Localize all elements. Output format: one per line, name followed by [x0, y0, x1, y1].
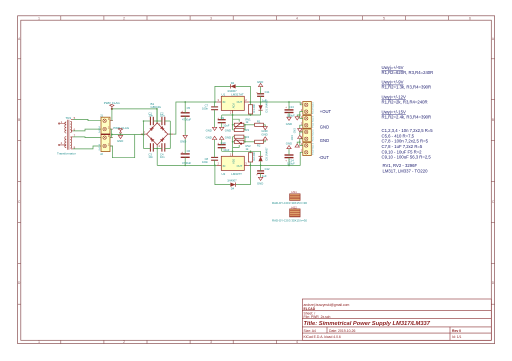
op-amp U1 regulator LM317 — [221, 96, 244, 110]
svg-text:C12: C12 — [265, 167, 270, 171]
svg-text:GND: GND — [286, 141, 292, 145]
capacitor C14 — [285, 155, 294, 158]
svg-text:D2: D2 — [231, 81, 235, 85]
svg-text:R1,R2=1.3k, R3,R4=390R: R1,R2=1.3k, R3,R4=390R — [382, 84, 432, 89]
svg-text:GND: GND — [257, 80, 263, 84]
wire output gnd brackets — [297, 112, 303, 146]
svg-text:+: + — [181, 109, 183, 113]
svg-text:Rev 0: Rev 0 — [452, 329, 461, 333]
svg-text:C5,6 - 410 R=7,5: C5,6 - 410 R=7,5 — [382, 133, 415, 138]
svg-text:U2: U2 — [222, 172, 226, 176]
svg-text:+: + — [256, 172, 258, 176]
ground bracket B up — [295, 144, 299, 147]
connector P4 output — [303, 143, 312, 156]
connector P1 output — [303, 102, 312, 115]
svg-text:4: 4 — [296, 340, 298, 344]
svg-text:P2x1 S2x2,5: P2x1 S2x2,5 — [312, 129, 314, 142]
connector P2 output — [303, 115, 312, 128]
svg-text:2: 2 — [123, 16, 125, 20]
svg-text:GND: GND — [320, 138, 329, 143]
svg-text:R1 240: R1 240 — [252, 104, 256, 113]
svg-text:3: 3 — [210, 16, 212, 20]
resistor R2 — [248, 153, 252, 162]
svg-text:C9,10 - 100uF 56,3 R=2,5: C9,10 - 100uF 56,3 R=2,5 — [382, 155, 432, 160]
wire AC1 rail — [112, 109, 157, 124]
svg-text:Date: 2019-10-26: Date: 2019-10-26 — [329, 329, 356, 333]
svg-text:2x0,54: 2x0,54 — [99, 126, 101, 133]
svg-text:LM337T: LM337T — [231, 172, 242, 176]
diode D2 bypass — [215, 86, 251, 102]
svg-text:6: 6 — [469, 16, 471, 20]
svg-text:PWR_FLAG: PWR_FLAG — [113, 126, 130, 130]
diode D4 bypass — [215, 165, 251, 184]
capacitor C4 — [162, 143, 165, 151]
svg-text:10n: 10n — [160, 155, 165, 159]
svg-text:D3 1N4007: D3 1N4007 — [264, 147, 268, 161]
svg-text:+: + — [217, 116, 219, 120]
connector J1 — [101, 117, 110, 134]
svg-text:4700uF: 4700uF — [182, 118, 191, 122]
svg-text:RAD-DY-CO/3 30X15 h=30: RAD-DY-CO/3 30X15 h=30 — [272, 201, 307, 205]
ground mid C5 C6 — [183, 135, 187, 138]
trimmer RV1 — [234, 123, 244, 126]
resistor R4 — [234, 135, 244, 138]
svg-text:C9,10 - 10uF F5 R=2: C9,10 - 10uF F5 R=2 — [382, 149, 423, 154]
wire U2 out rail — [222, 151, 303, 165]
svg-text:GND: GND — [291, 135, 294, 141]
svg-text:ADJ: ADJ — [231, 158, 235, 164]
svg-text:KiCad E.D.A. kicad 4.0.6: KiCad E.D.A. kicad 4.0.6 — [304, 335, 341, 339]
svg-text:R1,R2=620R, R3,R4=240R: R1,R2=620R, R3,R4=240R — [382, 70, 434, 75]
capacitor C6 — [181, 154, 190, 157]
svg-text:+OUT: +OUT — [320, 109, 332, 114]
svg-text:J1: J1 — [100, 113, 103, 117]
svg-text:GND: GND — [286, 122, 292, 126]
svg-text:IN: IN — [223, 164, 226, 168]
ground P2 pin2 — [298, 129, 302, 132]
svg-text:1: 1 — [38, 340, 40, 344]
bridge B1 — [147, 123, 168, 145]
svg-text:ELCAD: ELCAD — [304, 307, 316, 311]
capacitor C8 — [211, 157, 218, 160]
svg-text:GND: GND — [257, 182, 263, 186]
op-amp U2 regulator LM337 — [221, 156, 244, 170]
svg-text:C10: C10 — [221, 141, 226, 145]
svg-text:R2: R2 — [257, 144, 261, 148]
ground C10 up — [220, 136, 224, 139]
svg-text:Transformator: Transformator — [57, 151, 76, 155]
capacitor C5 — [181, 113, 190, 116]
svg-text:2x0,54: 2x0,54 — [99, 143, 101, 150]
svg-text:100uF: 100uF — [287, 161, 295, 165]
svg-text:-OUT: -OUT — [319, 155, 330, 160]
wire TR1 sec to J1 — [73, 119, 101, 148]
svg-text:R4: R4 — [246, 135, 250, 139]
resistor R6 — [255, 140, 264, 143]
svg-text:C11: C11 — [265, 90, 270, 94]
capacitor C11 — [257, 94, 264, 97]
svg-text:GND: GND — [180, 140, 186, 144]
svg-text:GND: GND — [320, 124, 329, 129]
ground C14 up — [287, 146, 291, 149]
svg-text:HS2: HS2 — [291, 205, 297, 209]
capacitor C1 — [150, 117, 153, 125]
heatsink HS2 — [290, 209, 301, 217]
ground C9 — [220, 127, 224, 130]
svg-text:ADJ: ADJ — [231, 103, 235, 109]
connector P3 output — [303, 129, 312, 142]
svg-text:10uF: 10uF — [223, 148, 229, 152]
wire centre tap — [110, 129, 144, 138]
svg-text:R1: R1 — [257, 119, 261, 123]
connector J2 — [101, 134, 110, 151]
resistor R5 — [255, 123, 264, 126]
resistor R1 — [248, 105, 252, 114]
svg-text:C7,8 - 1uF 7,2x2 R=5: C7,8 - 1uF 7,2x2 R=5 — [382, 144, 423, 149]
trimmer RV2 — [234, 140, 244, 143]
svg-text:1: 1 — [38, 16, 40, 20]
svg-text:C13: C13 — [289, 105, 294, 109]
resistor R3 — [234, 128, 244, 131]
svg-text:Title: Simmetrical Power Suppl: Title: Simmetrical Power Supply LM317/LM… — [304, 321, 431, 327]
wire U1 out rail — [222, 102, 303, 130]
svg-text:10n: 10n — [148, 114, 153, 118]
junction dots — [111, 101, 300, 166]
svg-text:C1,2,3,4 - 10n 7,2x2,5 R=5: C1,2,3,4 - 10n 7,2x2,5 R=5 — [382, 128, 434, 133]
svg-text:1N4007: 1N4007 — [227, 179, 237, 183]
svg-text:100n: 100n — [202, 160, 208, 164]
svg-text:GND: GND — [206, 128, 212, 132]
svg-text:C6: C6 — [187, 149, 191, 153]
ground C11 up — [258, 83, 262, 86]
svg-text:Size: A4: Size: A4 — [304, 329, 317, 333]
svg-text:J2: J2 — [100, 152, 103, 156]
svg-text:R1,R2=2.4k, R3,R4=390R: R1,R2=2.4k, R3,R4=390R — [382, 114, 432, 119]
svg-text:C7,8 - 100n 7,2x2,5 R=5: C7,8 - 100n 7,2x2,5 R=5 — [382, 139, 429, 144]
svg-text:C9: C9 — [221, 116, 225, 120]
capacitor C3 — [150, 143, 153, 151]
svg-text:P2x1 S2x2,5: P2x1 S2x2,5 — [312, 115, 314, 128]
svg-text:4: 4 — [296, 16, 298, 20]
svg-text:10n: 10n — [160, 114, 165, 118]
diode D3 — [259, 156, 263, 161]
svg-text:D4: D4 — [231, 187, 235, 191]
svg-text:5: 5 — [383, 16, 385, 20]
svg-text:RV1, RV2 - 3296F: RV1, RV2 - 3296F — [383, 163, 418, 168]
svg-text:Id: 1/1: Id: 1/1 — [452, 335, 462, 339]
capacitor C12 — [257, 171, 264, 174]
svg-text:3: 3 — [210, 340, 212, 344]
wire C5 C6 column — [184, 102, 186, 165]
svg-text:B: B — [492, 118, 494, 122]
svg-text:GND: GND — [261, 133, 267, 137]
svg-text:R3: R3 — [246, 128, 250, 132]
svg-text:OUT: OUT — [237, 164, 243, 168]
svg-text:GND: GND — [117, 139, 123, 143]
svg-text:LM317, LM337 - TO220: LM317, LM337 - TO220 — [383, 168, 429, 173]
svg-text:HS1: HS1 — [291, 190, 297, 194]
capacitor C10 — [218, 145, 226, 148]
svg-text:1uF: 1uF — [262, 98, 267, 102]
ground bracket A — [295, 117, 299, 120]
svg-text:10n: 10n — [148, 155, 153, 159]
ground C12 — [258, 177, 262, 180]
capacitor C7 — [211, 107, 218, 110]
svg-text:R2 240: R2 240 — [252, 152, 256, 161]
wire bridge verticals — [144, 102, 217, 165]
ground R6 up — [263, 137, 267, 140]
svg-text:100uF: 100uF — [287, 113, 295, 117]
wire RV1 R3 — [233, 125, 255, 130]
svg-text:File: PWR_2x.sch: File: PWR_2x.sch — [304, 315, 331, 319]
TITLE BLOCK — [302, 299, 491, 340]
svg-text:P2x1 S2x2,5: P2x1 S2x2,5 — [312, 142, 314, 155]
svg-text:GND: GND — [293, 128, 296, 134]
svg-text:GND: GND — [225, 136, 231, 140]
capacitor C13 — [285, 110, 294, 113]
svg-text:P2x1 S2x2,5: P2x1 S2x2,5 — [312, 101, 314, 114]
svg-text:C5: C5 — [187, 106, 191, 110]
svg-text:4700uF: 4700uF — [182, 161, 191, 165]
svg-text:+: + — [285, 105, 287, 109]
svg-text:1N4007: 1N4007 — [227, 89, 237, 93]
ground C7 — [212, 127, 216, 130]
svg-text:OUT: OUT — [237, 100, 243, 104]
heatsink HS1 — [290, 194, 301, 201]
svg-text:GND: GND — [225, 128, 231, 132]
wire AC2 route — [110, 135, 135, 158]
svg-text:+: + — [181, 150, 183, 154]
ground R5 — [263, 127, 267, 130]
transformer TR1 — [58, 119, 73, 149]
ground C8 up — [212, 136, 216, 139]
svg-text:IN: IN — [223, 100, 226, 104]
diode D1 — [259, 105, 263, 110]
svg-text:GND: GND — [206, 136, 212, 140]
svg-text:RAD-DY-CO/3 30X15 h=30: RAD-DY-CO/3 30X15 h=30 — [272, 219, 307, 223]
svg-text:2: 2 — [123, 340, 125, 344]
ground C13 — [287, 117, 291, 120]
svg-text:100n: 100n — [202, 106, 208, 110]
svg-text:U1: U1 — [222, 92, 226, 96]
NOTES TEXT right side — [382, 65, 434, 173]
ground P3 pin1 up — [298, 135, 302, 138]
capacitor C9 — [218, 120, 226, 123]
ground centre tap — [118, 135, 122, 138]
svg-text:GBU4G: GBU4G — [151, 105, 162, 109]
wire R4 RV2 — [233, 137, 255, 152]
capacitor C2 — [162, 117, 165, 125]
svg-text:+: + — [217, 141, 219, 145]
svg-text:B: B — [18, 118, 20, 122]
svg-text:R1,R2=2k, R3,R4=240R: R1,R2=2k, R3,R4=240R — [382, 100, 428, 105]
svg-text:+: + — [256, 90, 258, 94]
svg-text:TR1: TR1 — [66, 116, 72, 120]
